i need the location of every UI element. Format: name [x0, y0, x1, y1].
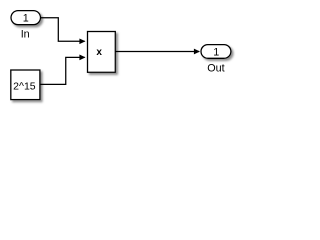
wire from 2^15 to product input 2	[40, 55, 86, 85]
svg-text:Out: Out	[207, 63, 224, 75]
svg-text:1: 1	[23, 13, 29, 25]
inport In (block 1)	[11, 11, 41, 25]
svg-text:x: x	[96, 47, 102, 58]
svg-text:In: In	[21, 28, 30, 40]
constant block 2^15	[11, 70, 40, 100]
svg-text:1: 1	[213, 47, 219, 59]
outport Out (block 1)	[201, 45, 231, 59]
wire from product to outport	[115, 49, 200, 55]
wire from In to product input 1	[41, 18, 86, 44]
product block x	[88, 32, 116, 73]
svg-text:2^15: 2^15	[13, 81, 36, 93]
